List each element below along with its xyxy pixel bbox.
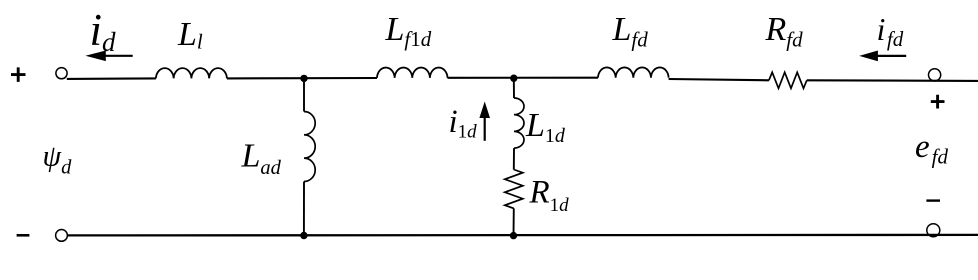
polarity sign + (right) (931, 95, 945, 109)
current arrow i_fd (859, 51, 906, 62)
wire shunt upper to L_1d (513, 78, 515, 98)
terminal circle top-right (929, 69, 941, 81)
wire shunt L_ad upper (303, 78, 305, 111)
node B bottom (510, 232, 517, 239)
wire top rail left segment (67, 77, 156, 80)
wire top rail between L_f1d and L_fd (448, 77, 599, 79)
resistor R_fd (769, 72, 807, 88)
inductor L_l (156, 68, 227, 78)
wire top rail between L_fd and R_fd (669, 79, 769, 80)
polarity sign + (left) (11, 67, 26, 82)
wire between L_1d and R_1d (513, 148, 515, 169)
terminal circle top-left (56, 68, 67, 79)
polarity sign - (right) (926, 199, 940, 201)
wire top rail between L_l and L_f1d (227, 77, 377, 80)
node A bottom (300, 232, 307, 239)
wire top rail right segment (807, 79, 978, 82)
inductor L_f1d (377, 68, 448, 78)
node A top (junction of L_l / L_ad / L_f1d) (300, 75, 307, 82)
current arrow i_1d (479, 102, 490, 141)
node B top (junction of L_f1d / L_1d / L_fd) (510, 75, 517, 82)
inductor L_1d (shunt) (514, 98, 524, 148)
wire bottom rail (67, 234, 978, 237)
terminal circle bottom-left (56, 230, 68, 242)
inductor L_fd (598, 67, 669, 77)
terminal circle bottom-right (927, 224, 940, 237)
current arrow i_d (85, 51, 132, 62)
polarity sign - (left) (17, 234, 30, 237)
wire shunt L_ad lower (303, 182, 305, 236)
wire R_1d to bottom rail (513, 208, 515, 235)
inductor L_ad (shunt) (304, 112, 315, 182)
resistor R_1d (shunt) (505, 170, 523, 209)
